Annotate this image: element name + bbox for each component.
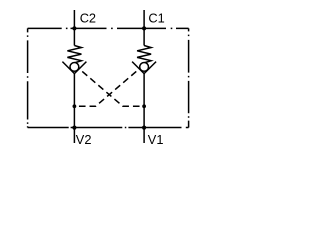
svg-text:C1: C1	[148, 10, 164, 25]
svg-text:C2: C2	[80, 10, 96, 25]
svg-text:V2: V2	[76, 132, 92, 147]
svg-text:V1: V1	[148, 132, 164, 147]
